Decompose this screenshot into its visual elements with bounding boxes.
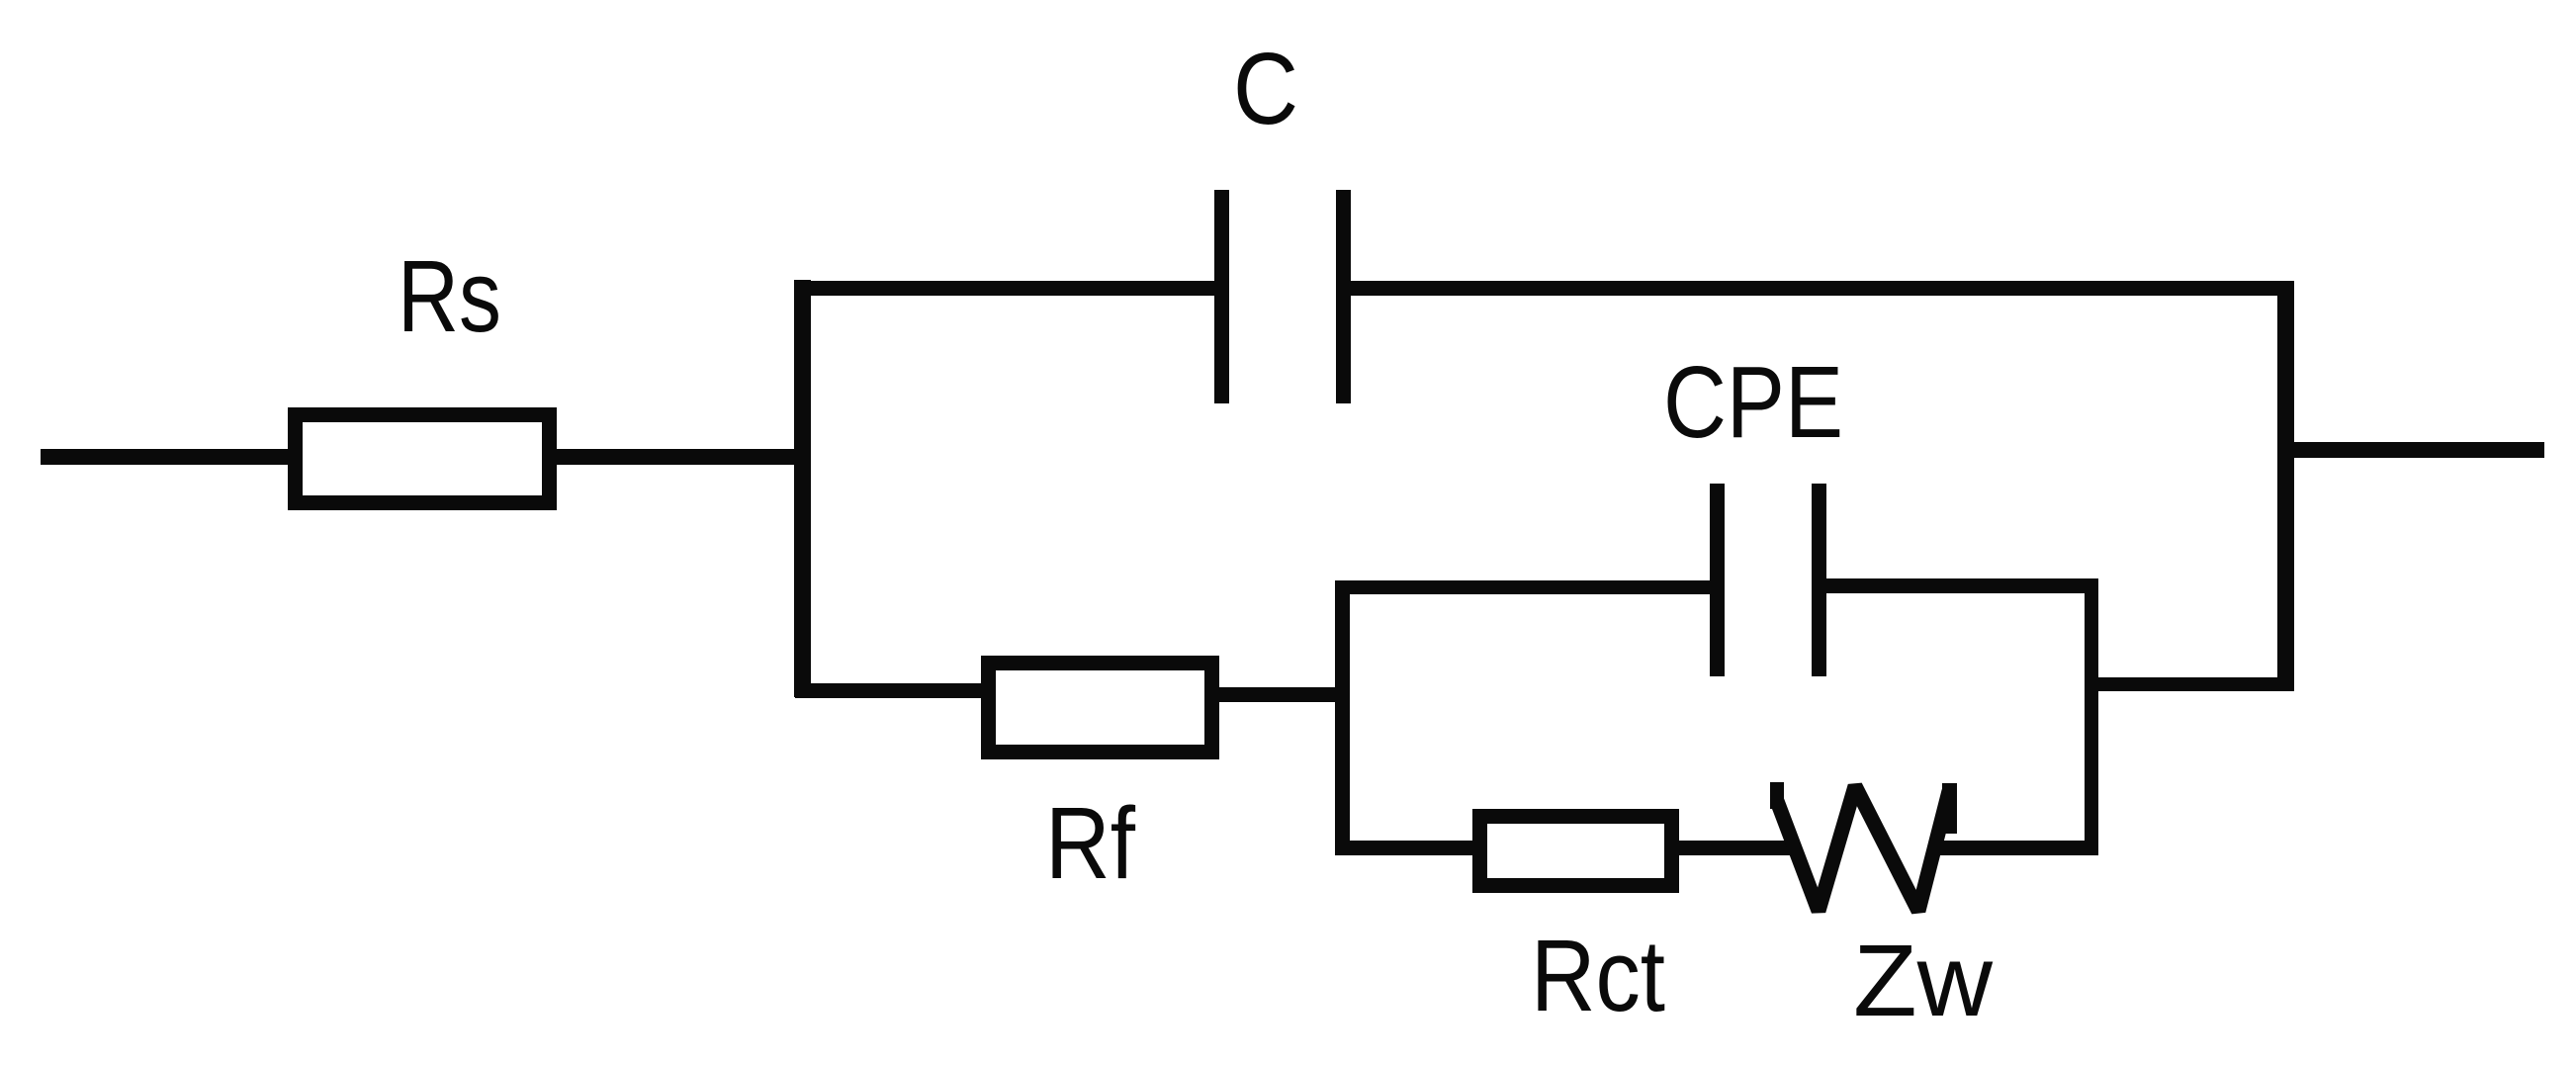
resistor Rs [296,415,550,503]
wire node A to Rf [795,683,981,698]
wire output lead [2294,442,2544,458]
wire left lead [41,449,289,465]
CPE block right vertical bar [2085,578,2098,852]
CPE block left vertical bar [1335,580,1350,854]
wire CPE block top right [1826,578,2085,593]
wire CPE block top left [1335,580,1710,594]
node A junction vertical bar [794,280,811,697]
resistor Rf [989,664,1212,753]
Warburg element Zw zigzag [1770,782,1957,911]
wire Rs to node A [557,449,795,465]
wire Zw to block right bar [1935,841,2098,855]
wire Rct to Zw [1679,841,1800,855]
capacitor C right plate [1336,190,1351,403]
svg-text:CPE: CPE [1663,345,1843,459]
svg-text:C: C [1233,32,1298,145]
wire top branch left [795,281,1214,296]
capacitor C left plate [1214,190,1229,403]
svg-text:Rs: Rs [398,239,501,353]
wire CPE block exit to node B [2098,677,2294,691]
capacitor CPE left plate [1710,484,1725,676]
wire CPE block bottom left [1335,841,1472,855]
resistor Rct [1480,817,1672,886]
wire Rf to CPE block [1219,687,1335,702]
wire top branch right [1351,281,2294,296]
node B right vertical bar [2277,282,2294,689]
svg-text:Zw: Zw [1853,924,1994,1037]
capacitor CPE right plate [1812,484,1826,676]
svg-text:Rf: Rf [1045,786,1135,900]
svg-text:Rct: Rct [1531,919,1665,1032]
